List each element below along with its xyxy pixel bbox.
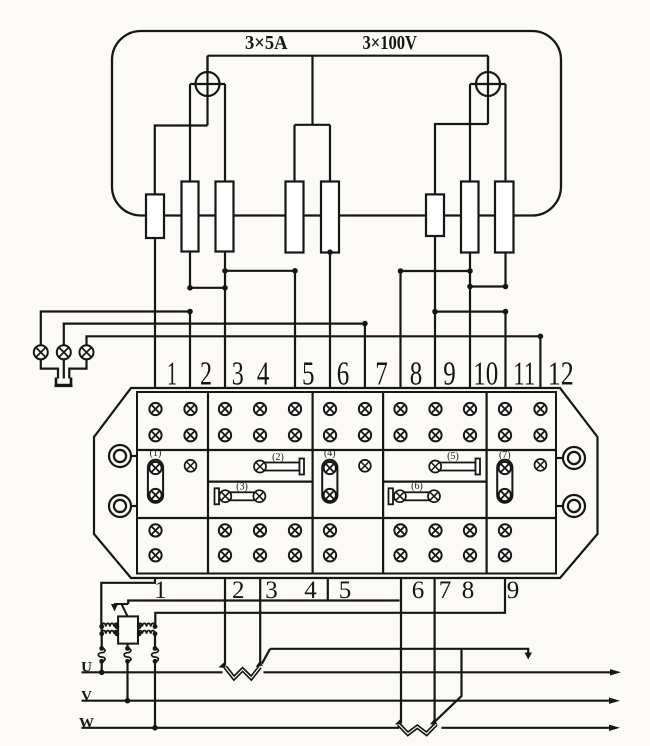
- current loop zigzag W: [399, 724, 437, 734]
- wire diag to zigzag1: [262, 649, 270, 664]
- wire R7 riser: [469, 84, 471, 182]
- screws bottom rows: [149, 524, 511, 561]
- hole stub top-right: [556, 457, 563, 459]
- element R2: [182, 182, 199, 252]
- svg-text:3: 3: [232, 356, 244, 393]
- divider cell 4-5: [486, 392, 488, 574]
- wire R8 riser: [504, 84, 506, 182]
- svg-text:7: 7: [439, 577, 452, 604]
- wire right winding tail: [154, 634, 156, 649]
- hole stub bottom-left: [131, 505, 137, 507]
- svg-text:10: 10: [473, 356, 498, 393]
- regulator winding left lower: [102, 631, 118, 634]
- svg-text:V: V: [81, 689, 92, 705]
- bus W left segment: [82, 727, 400, 729]
- mounting hole bottom-right: [563, 495, 585, 517]
- mounting hole top-right: [563, 447, 585, 469]
- bus V: [82, 700, 613, 702]
- voltage link oval (4): [322, 460, 337, 503]
- mounting hole bottom-left: [109, 495, 131, 517]
- fuse FU1: [99, 646, 104, 651]
- lamp HL3: [80, 345, 94, 359]
- junction dot t5 wire top: [292, 268, 298, 274]
- svg-text:6: 6: [337, 356, 350, 393]
- wire top rail 3x5A/3x100V: [206, 56, 208, 96]
- wire circle1 to R1: [155, 126, 208, 195]
- wire circle2 to R6: [435, 124, 488, 194]
- link bar (5): [440, 463, 476, 471]
- element R6: [426, 194, 444, 236]
- element R3: [216, 182, 234, 252]
- svg-text:(5): (5): [447, 451, 459, 462]
- wire t3b drop: [259, 578, 261, 664]
- svg-text:(1): (1): [150, 448, 162, 459]
- wire left winding tail: [101, 627, 103, 649]
- terminal numbers 1-12: [167, 356, 574, 393]
- voltage link oval (1): [148, 460, 163, 503]
- terminal block octagon: [94, 388, 598, 578]
- current loop zigzag U: [225, 667, 260, 678]
- wire t1 drop: [154, 238, 156, 390]
- wire t9b to regulator: [155, 578, 505, 627]
- svg-text:7: 7: [375, 356, 388, 393]
- junction dot R5 stub: [327, 249, 333, 255]
- wire t11 drop: [504, 312, 506, 390]
- divider cell 1-2: [207, 392, 209, 574]
- wire t5 drop: [294, 271, 296, 390]
- jumper R2-R3: [190, 287, 225, 289]
- wire R2 riser: [189, 84, 191, 182]
- regulator winding right upper: [138, 623, 155, 626]
- link bar (3): [230, 492, 255, 500]
- hole stub bottom-right: [556, 505, 563, 507]
- jumper R3-R4: [225, 270, 295, 272]
- wire t3 drop: [224, 252, 226, 391]
- svg-text:9: 9: [443, 356, 456, 393]
- lamp HL1: [34, 345, 48, 359]
- element R1: [146, 194, 164, 238]
- svg-text:12: 12: [548, 356, 574, 393]
- wire L2 to arrow: [128, 601, 399, 605]
- svg-text:(2): (2): [272, 452, 284, 463]
- svg-text:11: 11: [513, 356, 535, 393]
- element R7: [461, 182, 479, 253]
- svg-text:9: 9: [507, 577, 520, 604]
- mounting hole top-left: [109, 445, 131, 467]
- wire FU2 to V: [126, 661, 128, 700]
- regulator winding right lower: [138, 631, 155, 634]
- bus U left segment: [82, 671, 223, 673]
- screws top rows: [149, 403, 546, 442]
- wire mid bridge to R4 R5: [311, 56, 313, 125]
- wire box bottom tap: [126, 644, 128, 649]
- link bar (2): [264, 463, 300, 471]
- arrow t3b end: [256, 662, 263, 668]
- divider middle band top: [137, 449, 556, 451]
- junction dot t8 corner: [398, 268, 404, 274]
- hole stub top-left: [131, 455, 137, 457]
- junction dot R7 at 286: [467, 284, 473, 290]
- wire R3 riser: [224, 84, 226, 182]
- junction dot R6 at 311: [432, 309, 438, 315]
- divider cell 3-4: [382, 392, 384, 574]
- svg-text:8: 8: [462, 577, 475, 604]
- bus W right segment: [442, 727, 613, 729]
- junction dot R3 at 270: [222, 268, 228, 274]
- wire L4 branch diagonal: [435, 649, 462, 722]
- wire t6 drop: [329, 253, 331, 391]
- divider cell 2-3: [312, 392, 314, 574]
- jumper R6-t11: [435, 311, 506, 313]
- lamp HL2: [57, 345, 71, 359]
- jumper R7-R8: [470, 285, 506, 287]
- junction dot R3 at 287: [222, 285, 228, 291]
- wire FU3 to W: [154, 661, 156, 728]
- element R4: [286, 182, 304, 253]
- wire t2b drop: [224, 578, 226, 666]
- element R5: [321, 182, 339, 253]
- wire t6b drop: [400, 578, 402, 724]
- wire R2 tail: [189, 252, 191, 288]
- coil circle CT left: [196, 72, 220, 96]
- junction dot R7 at 271: [467, 268, 473, 274]
- divider mid cell2: [208, 481, 313, 483]
- regulator box: [118, 616, 138, 643]
- svg-text:2: 2: [200, 356, 212, 393]
- svg-text:6: 6: [412, 577, 425, 604]
- divider mid cell4: [383, 481, 487, 483]
- wire lamp2 to t7: [64, 324, 365, 346]
- wire lamp1 to t2: [41, 312, 190, 346]
- wire L4 with down arrow: [270, 649, 528, 653]
- screw t7 mid: [359, 460, 371, 472]
- bottom terminal numbers 1-9: [154, 577, 519, 604]
- wire t7b drop: [434, 578, 436, 724]
- wire t8 drop: [399, 271, 401, 390]
- fuse FU3: [153, 646, 158, 651]
- divider middle band bottom: [137, 517, 556, 519]
- voltage link oval (7): [497, 460, 512, 503]
- wire t9 drop: [434, 236, 436, 390]
- svg-text:(4): (4): [324, 448, 336, 459]
- element R8: [495, 182, 514, 253]
- svg-text:(3): (3): [236, 482, 248, 493]
- link bar (6): [405, 492, 429, 500]
- wire t1b to regulator: [101, 578, 155, 627]
- wire t10 drop: [469, 253, 471, 391]
- junction dot R2 jumper: [187, 285, 193, 291]
- wire lamp bottoms: [41, 359, 58, 378]
- svg-text:3×5A: 3×5A: [245, 32, 288, 54]
- coil circle PT right: [476, 72, 500, 96]
- wire lamp3 to t12: [87, 336, 541, 345]
- screw t2 mid: [185, 460, 197, 472]
- wire FU1 to U: [101, 661, 103, 672]
- svg-text:5: 5: [302, 356, 315, 393]
- svg-text:W: W: [79, 716, 94, 732]
- meter body outline: [112, 31, 561, 216]
- plug connector X1: [56, 378, 71, 386]
- arrow into regulator: [114, 603, 128, 605]
- arrow L4 end: [525, 653, 533, 660]
- arrow t6b end: [395, 719, 402, 725]
- bus U right segment: [264, 671, 614, 673]
- svg-text:(7): (7): [499, 450, 511, 461]
- screw t12 mid: [535, 459, 547, 471]
- terminal block inner frame: [137, 392, 556, 574]
- junction dot R8 at 286: [503, 284, 509, 290]
- wire t5b drop: [327, 578, 329, 601]
- svg-text:(6): (6): [411, 481, 423, 492]
- arrow t2b end: [219, 662, 226, 668]
- arrow t7b end: [430, 719, 438, 725]
- fuse FU2: [125, 646, 130, 651]
- regulator winding left upper: [102, 623, 118, 626]
- wire R8 tail: [504, 253, 506, 287]
- jumper t8-R7: [401, 270, 471, 272]
- svg-text:8: 8: [410, 356, 423, 393]
- junction dot t11 wire top: [503, 309, 509, 315]
- svg-text:1: 1: [167, 356, 177, 393]
- svg-text:4: 4: [257, 356, 270, 393]
- svg-text:3×100V: 3×100V: [363, 32, 418, 54]
